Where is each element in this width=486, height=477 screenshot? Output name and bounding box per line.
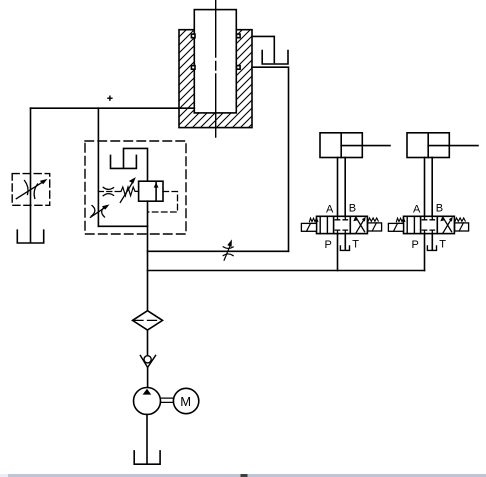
status bar thumb (241, 474, 248, 477)
wire pilot drop x=98.4 (97, 108, 99, 226)
throttle V3 on branch arcs (223, 247, 233, 256)
DV1 center blocked ports (335, 216, 347, 220)
throttle V2 arcs on drop (92, 206, 106, 218)
svg-text:A: A (326, 204, 334, 216)
junction mark (plus) (108, 96, 112, 100)
svg-text:A: A (413, 204, 421, 216)
wire DV2 P (424, 234, 426, 271)
DV1 spring right (368, 218, 378, 222)
check valve CV1 (140, 355, 155, 367)
CYL2 rod (428, 145, 478, 147)
seal square left upper (191, 34, 195, 38)
shaft coupling (161, 398, 174, 402)
wire DV2 T (431, 234, 433, 250)
svg-text:B: B (436, 203, 443, 215)
throttle V1 arrow (16, 182, 43, 199)
svg-text:B: B (349, 203, 356, 215)
DV1 spring left (309, 218, 317, 222)
wire branch to press lower port (148, 250, 289, 252)
svg-text:P: P (325, 239, 332, 251)
DV2 solenoid left (388, 223, 403, 231)
tank T6 under DV2 (427, 246, 436, 251)
relief valve U1 internal arrow (155, 181, 157, 201)
DV2 spring right (455, 218, 465, 222)
filter F1 (133, 311, 163, 330)
cylinder block (hatched press body) (179, 30, 252, 128)
throttle valve V1 (dashed enclosure) (12, 174, 50, 206)
svg-text:M: M (180, 394, 191, 409)
tank T3 (internal) (111, 155, 137, 168)
throttle V3 arrow (224, 246, 230, 260)
seal square right lower (237, 66, 241, 70)
CYL1 piston (340, 133, 342, 158)
wire CYL1 port B (344, 158, 346, 217)
wire supply left horizontal (31, 107, 195, 109)
wire DV1 P (337, 234, 339, 271)
wire CYL2 port B (431, 158, 433, 217)
CYL1 rod (341, 145, 390, 147)
throttle V1 arcs (25, 181, 38, 199)
DV2 crossed paths (443, 217, 452, 233)
relief valve U1 body (139, 181, 163, 201)
centerline of ram (215, 0, 217, 137)
wire CYL2 port A (424, 158, 426, 217)
DV1 body (317, 216, 368, 233)
wire check valve to pump (147, 367, 149, 388)
wire CYL1 port A (337, 158, 339, 217)
wire filter to check valve (147, 330, 149, 355)
directional valve DV1 (301, 216, 381, 270)
bore clearing (194, 29, 236, 113)
DV1 solenoid left (301, 223, 316, 231)
DV2 left box parallel paths (407, 216, 414, 233)
wire main pressure drop (147, 201, 149, 310)
directional valve DV2 (388, 216, 468, 270)
valve assembly enclosure (dashed box) (85, 141, 186, 234)
wire assembly bottom (98, 225, 147, 227)
DV1 crossed paths (356, 217, 365, 233)
DV2 solenoid right (455, 223, 469, 231)
wire DV1 T (344, 234, 346, 250)
motor M1 (173, 388, 198, 413)
wire U1 top port to internal tank (124, 148, 148, 181)
DV2 center blocked ports (422, 216, 434, 220)
DV1 solenoid right (368, 223, 382, 231)
spring SP1 (121, 187, 139, 196)
wire upper port to tank (252, 36, 274, 62)
status bar (0, 474, 486, 477)
tank T5 under DV1 (340, 246, 349, 251)
tank T1 (top right) (262, 51, 288, 65)
svg-text:T: T (352, 239, 359, 251)
DV2 spring left (396, 218, 404, 222)
seal square right upper (237, 34, 241, 38)
tank T2 (left) (17, 230, 43, 243)
wire pump to tank (146, 415, 148, 464)
svg-text:T: T (439, 239, 446, 251)
cylinder CYL2 (407, 133, 449, 158)
pilot dashed right loop (148, 192, 178, 213)
DV2 body (404, 216, 455, 233)
tank T4 (main) (134, 451, 160, 464)
pump P1 (134, 388, 161, 415)
DV1 left box parallel paths (320, 216, 327, 233)
cylinder CYL1 (320, 133, 362, 158)
svg-text:P: P (412, 239, 419, 251)
restriction arcs (103, 187, 113, 195)
spring SP1 adjust arrow (120, 183, 132, 202)
throttle V2 arrow (90, 207, 105, 217)
CYL2 piston (427, 133, 429, 158)
wire lower port (252, 67, 289, 251)
pilot line dashed with restriction (98, 191, 120, 193)
wire manifold to valves (148, 270, 425, 272)
seal square left lower (191, 66, 195, 70)
ram plunger (194, 10, 236, 113)
wire left drop (30, 108, 32, 242)
